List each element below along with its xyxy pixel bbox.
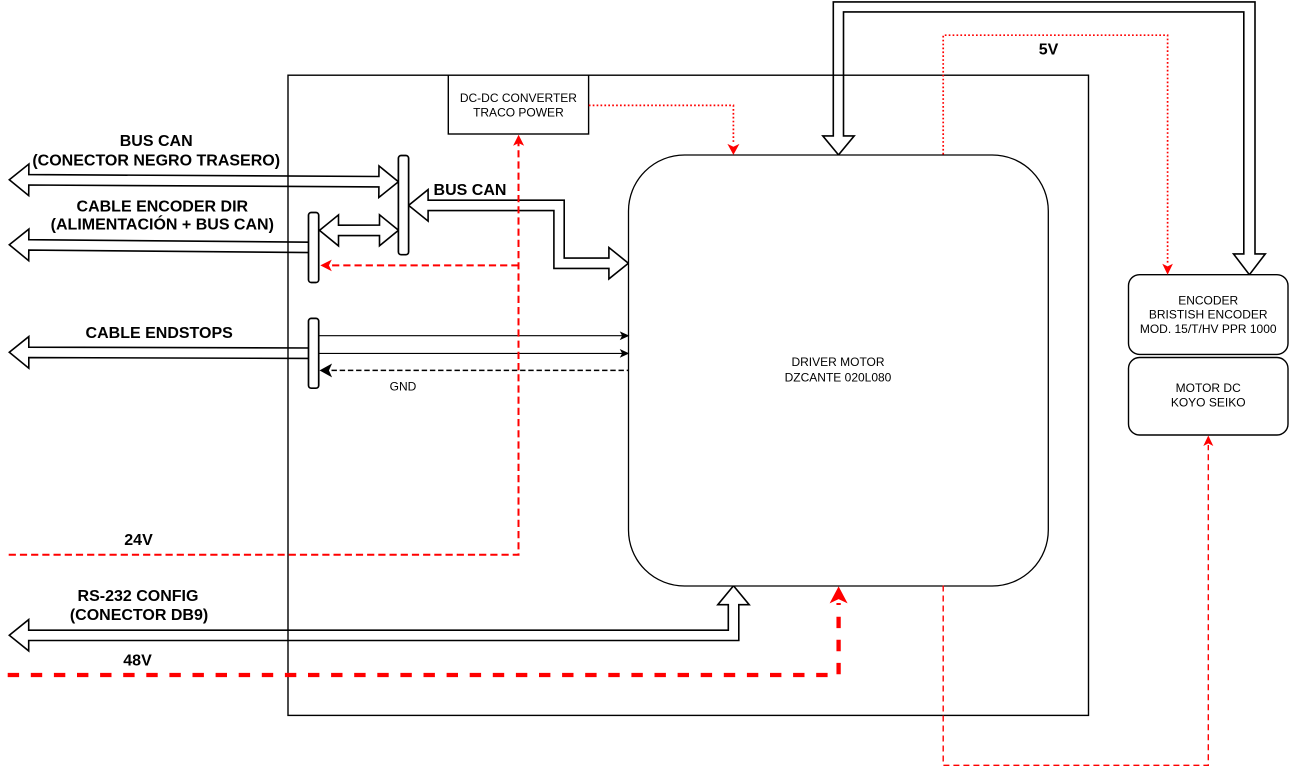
svg-text:CABLE ENDSTOPS: CABLE ENDSTOPS <box>86 325 234 342</box>
svg-text:DC-DC CONVERTER: DC-DC CONVERTER <box>460 91 577 105</box>
svg-text:BUS CAN: BUS CAN <box>120 133 193 150</box>
svg-text:(CONECTOR DB9): (CONECTOR DB9) <box>70 607 208 624</box>
svg-text:24V: 24V <box>124 532 153 549</box>
svg-text:48V: 48V <box>123 652 152 669</box>
svg-text:MOTOR DC: MOTOR DC <box>1176 381 1241 395</box>
svg-text:RS-232 CONFIG: RS-232 CONFIG <box>78 588 199 605</box>
svg-text:BUS CAN: BUS CAN <box>434 182 507 199</box>
svg-text:(CONECTOR NEGRO TRASERO): (CONECTOR NEGRO TRASERO) <box>32 152 280 169</box>
svg-text:ENCODER: ENCODER <box>1178 294 1238 308</box>
svg-text:KOYO SEIKO: KOYO SEIKO <box>1171 395 1246 409</box>
svg-text:GND: GND <box>390 380 417 394</box>
svg-text:CABLE ENCODER DIR: CABLE ENCODER DIR <box>77 198 249 215</box>
svg-text:TRACO POWER: TRACO POWER <box>473 106 564 120</box>
svg-text:MOD. 15/T/HV PPR 1000: MOD. 15/T/HV PPR 1000 <box>1140 322 1277 336</box>
svg-text:5V: 5V <box>1039 42 1059 59</box>
svg-text:(ALIMENTACIÓN + BUS CAN): (ALIMENTACIÓN + BUS CAN) <box>51 215 274 234</box>
svg-text:DZCANTE 020L080: DZCANTE 020L080 <box>785 370 892 384</box>
svg-text:DRIVER MOTOR: DRIVER MOTOR <box>791 355 884 369</box>
svg-text:BRISTISH ENCODER: BRISTISH ENCODER <box>1149 308 1268 322</box>
